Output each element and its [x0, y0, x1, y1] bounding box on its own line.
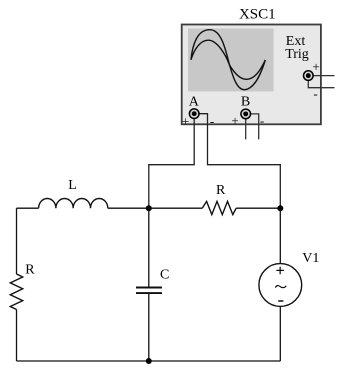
sine wave outer trace	[191, 30, 265, 90]
wire resistor R1 to bottom rail	[16, 310, 18, 362]
wire resistor R2 to node B	[236, 207, 280, 209]
svg-text:XSC1: XSC1	[239, 7, 276, 23]
wire node B to source V1	[279, 208, 281, 264]
ext trig wire lower	[308, 78, 334, 88]
inductor L	[39, 198, 108, 208]
svg-text:+: +	[231, 113, 238, 128]
resistor R1 vertical	[10, 274, 22, 310]
svg-text:V1: V1	[302, 251, 319, 266]
capacitor C top plate	[136, 287, 162, 289]
svg-text:R: R	[216, 183, 226, 198]
terminal A	[189, 109, 199, 119]
V1 minus sign	[278, 300, 283, 302]
bottom junction node	[146, 358, 152, 364]
node B junction	[277, 205, 283, 211]
voltage source V1	[259, 264, 302, 307]
resistor R2 horizontal	[202, 201, 236, 214]
svg-text:A: A	[189, 95, 200, 110]
capacitor C bottom plate	[136, 292, 162, 294]
wire bottom rail	[17, 360, 281, 362]
svg-text:+: +	[182, 114, 189, 129]
oscilloscope screen	[188, 29, 274, 92]
oscilloscope U1 body	[182, 25, 321, 125]
svg-text:B: B	[241, 95, 250, 110]
V1 plus sign	[276, 267, 284, 274]
svg-text:-: -	[260, 113, 264, 128]
svg-text:-: -	[210, 114, 214, 129]
sine wave inner trace	[191, 40, 265, 79]
V1 sine symbol	[275, 286, 286, 288]
wire source V1 to bottom rail	[279, 306, 281, 361]
svg-text:C: C	[160, 268, 169, 283]
wire node A to capacitor	[148, 208, 150, 286]
ext trig wire upper	[308, 75, 334, 77]
wire scope channel B minus stub	[246, 114, 259, 139]
svg-text:+: +	[312, 59, 319, 74]
wire node A to resistor R2	[149, 207, 202, 209]
node A junction	[146, 205, 152, 211]
ext trig terminal	[304, 71, 314, 81]
svg-text:Trig: Trig	[285, 47, 309, 62]
wire scope channel B plus stub	[245, 114, 247, 139]
svg-text:L: L	[68, 178, 77, 193]
wire capacitor to bottom node	[148, 294, 150, 361]
wire scope channel A plus to node A	[149, 114, 194, 209]
wire left branch down	[16, 208, 18, 274]
terminal B	[241, 109, 251, 119]
wire inductor to node A	[108, 207, 149, 209]
svg-text:R: R	[25, 262, 35, 277]
wire scope channel A minus to node B	[194, 114, 280, 209]
wire top rail left	[17, 207, 39, 209]
